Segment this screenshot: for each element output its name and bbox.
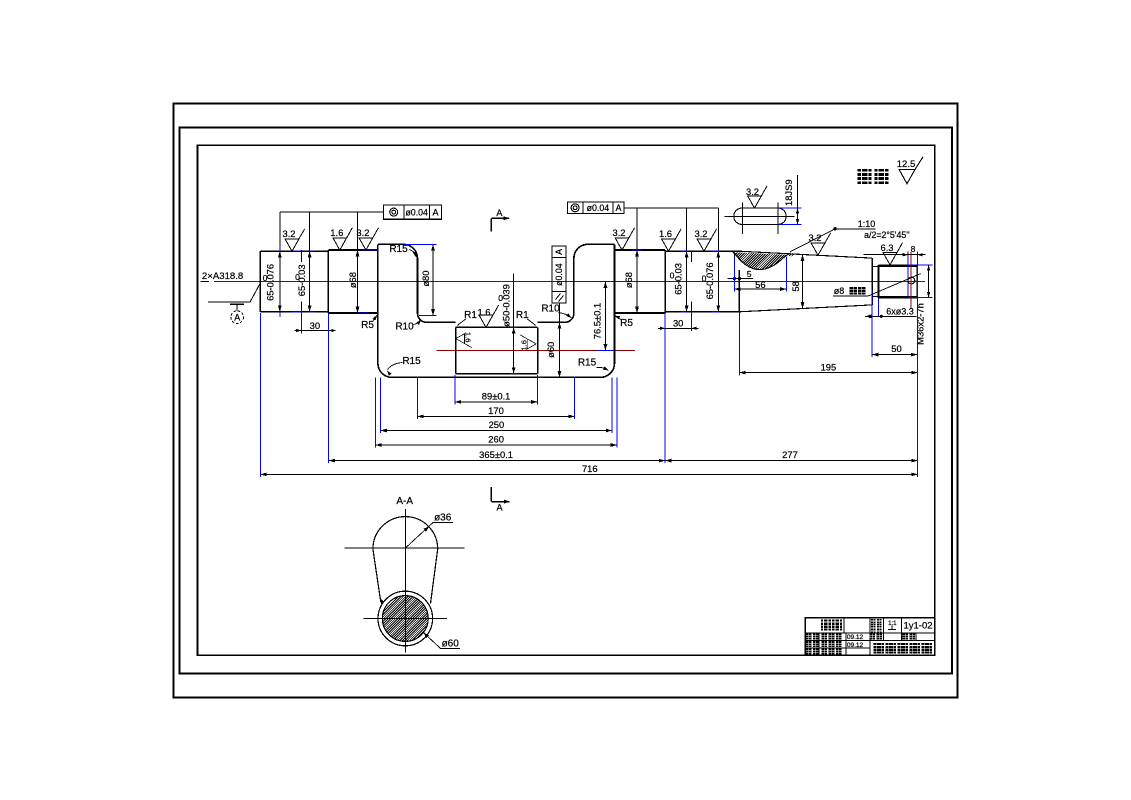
svg-text:A-A: A-A [396,496,413,507]
step Ø68 to Ø65 right [664,250,666,313]
svg-text:30: 30 [673,317,683,328]
title text quzhou [821,620,831,631]
svg-text:18JS9: 18JS9 [783,179,794,206]
svg-text:ø50-0.039: ø50-0.039 [501,284,512,327]
ext line overlap bottom [291,311,302,313]
roughness 1.6 right journal [659,228,681,251]
svg-text:195: 195 [821,361,837,372]
ext line overlap top [291,250,302,252]
svg-text:1y1-02: 1y1-02 [903,621,932,632]
svg-text:A: A [432,207,438,217]
dim 365 line [329,460,665,462]
keyway detail centerline [724,215,794,217]
taper end face [871,258,873,305]
web1 top edge [378,243,404,245]
dim 8 line [864,254,926,256]
pin edge blue overlaps [510,326,517,328]
svg-text:250: 250 [489,419,505,430]
dim 56 [734,288,786,290]
svg-text:6.3: 6.3 [880,242,893,253]
svg-text:3.2: 3.2 [746,186,759,197]
title row4 label [806,649,812,655]
title block v-line main [869,618,871,656]
dim 50 line [872,354,917,356]
crankpin left face [455,327,457,373]
parallelism symbol [556,294,561,300]
svg-text:30: 30 [310,320,320,331]
step Ø65 to Ø68 [327,250,329,313]
section tick right top [690,251,692,262]
svg-text:ø0.04: ø0.04 [587,203,610,213]
crankpin top edge [456,326,538,328]
svg-text:1.6: 1.6 [477,306,490,317]
svg-text:09.12: 09.12 [847,642,864,649]
svg-text:58: 58 [790,281,801,291]
web1 R10 corner to boss [418,313,427,322]
svg-text:716: 716 [582,463,598,474]
Ø65-0.076 right dimension line [717,208,719,312]
M36 thread crest top (thick) [879,264,918,267]
svg-text:R10: R10 [395,321,414,332]
Ø80 extension overlaps [404,243,437,245]
roughness 3.2 first journal [282,228,304,251]
section tick right bottom [690,302,692,312]
groove note line [865,315,917,317]
svg-text:ø68: ø68 [347,272,358,288]
svg-text:260: 260 [488,434,504,445]
roughness 1.6 on pin top [477,305,498,327]
svg-text:ø60: ø60 [545,342,556,358]
svg-text:277: 277 [782,449,798,460]
dim 170 line [417,415,574,417]
M36 thread crest bottom (thick) [879,296,918,299]
svg-text:3.2: 3.2 [282,228,295,239]
web1 right face [417,258,419,313]
title block h-line 3 left [805,647,870,649]
tolerance frame U2 box [568,202,625,214]
title block v-line row1 [843,618,845,633]
Ø60 dimension line [559,322,561,377]
Ø8 hole circle [908,277,915,284]
A-A side arrow [380,598,385,604]
svg-text:M36x2-7h: M36x2-7h [915,303,926,345]
shaft right end face [916,265,918,298]
dim 260 line [375,444,617,446]
Ø50 dimension line [513,274,515,374]
svg-text:ø0.04: ø0.04 [405,207,428,217]
svg-text:09.12: 09.12 [847,634,864,641]
Ø8 hole centerline [910,252,912,309]
svg-text:R5: R5 [620,318,633,329]
svg-text:1.6: 1.6 [659,228,672,239]
A-A pin horizontal centerline [364,618,447,620]
web2 left face [573,258,575,313]
title block h-line 2 [805,640,935,642]
web2 R15 top-left corner [574,244,588,258]
section tick 65-0.076/65-0.03 top [301,250,303,262]
svg-text:1.6: 1.6 [330,227,343,238]
Ø68 bottom edge right [615,312,666,314]
keyway slot left end arc [733,252,735,258]
svg-text:A: A [615,203,621,213]
svg-text:ø0.04: ø0.04 [554,263,564,286]
keyway slot right end fleck [787,253,791,256]
svg-text:R5: R5 [361,320,374,331]
svg-text:3.2: 3.2 [612,227,625,238]
76.5 extension overlaps [597,281,613,283]
ext overlap right top [681,250,687,252]
A-A pin circle [382,596,428,642]
datum line [208,301,250,303]
Ø65-0.03 left dimension line [309,212,311,312]
dim 5 line [727,278,753,280]
18JS9 dimension line [797,175,799,224]
keyway detail left cut line [742,203,744,234]
taper note underline [835,228,876,230]
dim 30 right [665,327,691,329]
dim 277 line [665,460,918,462]
Ø80 dimension line [432,244,434,315]
keyway slot hatching [712,242,834,278]
thread runout ext line [907,252,909,299]
boss top edge right [538,321,565,323]
A-A web right side [431,549,438,604]
section tick 65-0.076/65-0.03 bottom [301,302,303,314]
step Ø65 to taper [738,270,740,312]
tolerance frame U1 box [384,205,442,219]
dim 58 line [802,255,804,309]
roughness 3.2 right journal2 [694,228,716,251]
Ø68 left dimension line [357,212,359,313]
svg-text:1:10: 1:10 [858,219,876,229]
title row2 label [806,634,812,640]
dim 56 blue exts [733,258,735,292]
svg-text:R15: R15 [402,356,421,367]
Ø68 right dimension line [636,208,638,313]
title row4 name [822,649,828,655]
A-A pin hatching [330,595,544,665]
title row2 right blob1 [869,634,875,640]
Ø68 bottom edge left [328,312,378,314]
svg-text:5: 5 [747,269,752,279]
roughness 6.3 thread [880,242,902,265]
A-A web left side [373,549,381,602]
title cell scale labels [871,619,876,624]
tolerance frame U1 leader [280,211,384,213]
18JS9 extension bottom [779,223,802,225]
svg-text:170: 170 [488,405,504,416]
18JS9 extension top [779,207,802,209]
svg-text:65-0.076: 65-0.076 [265,264,276,301]
crankpin bottom edge [456,373,538,375]
svg-text:65-0.03: 65-0.03 [296,264,307,296]
title class text [874,643,885,654]
svg-text:1.6: 1.6 [464,332,473,343]
web1 left face [377,244,379,363]
title block outer box [805,618,935,656]
A-A web top arc [373,517,438,549]
svg-text:A: A [496,503,502,513]
datum A symbol [230,303,244,305]
A-A boss circle [378,591,433,646]
svg-text:ø80: ø80 [420,271,431,287]
title block v-lines right [882,618,884,641]
roughness 1.6 pin right face [519,335,536,351]
M36 dimension line [928,265,930,297]
dim 89 line [455,401,538,403]
groove blue exts [871,305,873,316]
center hole leader [250,283,260,302]
Ø68 top edge left [328,249,378,251]
roughness 3.2 Ø68 left [356,227,378,250]
M36 ext lines [909,264,933,266]
shaft top edge Ø65 left [260,250,328,252]
dim 716 line [260,473,917,475]
svg-text:A: A [496,208,502,218]
taper top edge [739,251,872,258]
shaft left end face [259,251,261,312]
svg-text:65-0.076: 65-0.076 [704,262,715,299]
svg-text:6xø3.3: 6xø3.3 [886,306,914,316]
dim 195 line [739,372,917,374]
web bottom edge [392,376,601,378]
svg-text:A: A [234,313,240,323]
svg-text:1.6: 1.6 [519,340,528,351]
tolerance frame U2 leader [624,207,718,209]
svg-text:3.2: 3.2 [356,227,369,238]
title row2 right blob2 [902,634,908,640]
svg-text:3.2: 3.2 [694,228,707,239]
roughness 12.5 remainder [899,169,915,183]
keyway detail slot outline [734,208,786,224]
roughness 3.2 on keyway detail [746,186,767,208]
web2 R10 corner from boss [565,313,574,322]
tolerance frame U2 concentricity symbol [571,204,579,212]
taper bottom edge [739,305,872,312]
svg-text:R15: R15 [578,357,597,368]
Ø65 top edge right [665,250,739,252]
web2 top edge [588,243,615,245]
Ø65 bottom edge right [665,311,739,313]
svg-text:56: 56 [755,279,765,290]
boss top edge left [427,321,456,323]
svg-text:ø68: ø68 [623,272,634,288]
svg-text:89±0.1: 89±0.1 [482,390,511,401]
A-A main horizontal centerline [344,547,464,549]
thread relief groove bottom [872,296,878,298]
Ø65-0.076 left dimension line [279,212,281,312]
web1 R15 bottom-left corner [378,363,392,377]
web2 R15 bottom-right corner [601,363,615,377]
Ø65-0.03 right dimension line [686,208,688,312]
dim 250 line [381,430,612,432]
ext line overlap Ø68 [362,249,378,251]
inner border frame [198,145,935,655]
svg-text:50: 50 [891,343,901,354]
svg-text:a/2=2°5'45'': a/2=2°5'45'' [864,230,910,240]
crankpin right face [537,327,539,373]
parallelism frame box [552,246,566,303]
web1 R15 top-right corner [404,244,418,258]
svg-text:1:1: 1:1 [888,621,897,627]
section mark A bottom [490,487,492,502]
svg-text:65-0.03: 65-0.03 [672,263,683,295]
groove right wall / thread start face [878,265,880,298]
dimension extension lines [259,313,261,477]
qiyu text [858,169,872,184]
web2 right face [614,244,616,363]
svg-text:ø60: ø60 [442,639,460,650]
crankpin centerline [437,350,635,352]
title row2 name [822,634,828,640]
svg-text:ø8: ø8 [834,286,845,296]
Ø68 top edge right [615,249,666,251]
roughness 3.2 taper [808,232,830,255]
ext overlap Ø68 right [631,249,643,251]
roughness 3.2 Ø68 right [612,227,634,250]
title block h-line 1 [805,632,935,634]
svg-text:365±0.1: 365±0.1 [479,449,513,460]
A-A vertical centerline [404,509,406,652]
title row3 name [822,641,828,647]
ext overlap right bottom [681,311,687,313]
tolerance frame U1 concentricity symbol [390,208,398,216]
svg-text:2×A318.8: 2×A318.8 [202,271,243,282]
svg-text:12.5: 12.5 [897,159,916,170]
main shaft centerline [214,281,925,283]
keyway slot outline [734,252,787,269]
76.5 dimension line [604,282,606,351]
shaft bottom edge Ø65 left [260,311,328,313]
roughness 1.6 pin left face [456,332,473,348]
middle border frame [180,128,953,674]
Ø65-0.076 left ext ticks [279,246,281,251]
dim 30 left [301,330,328,332]
thread relief groove top [872,265,878,267]
dim 30 left blue exts [300,311,302,334]
parallelism frame leader [559,303,561,322]
roughness 1.6 second journal [330,227,352,250]
section mark A top [490,218,492,231]
dim 30 right blue ext [690,312,692,331]
svg-text:A: A [554,249,564,255]
svg-text:R10: R10 [541,303,560,314]
outer border frame [174,104,958,698]
title row3 label [806,641,812,647]
svg-text:R15: R15 [389,244,408,255]
keyway detail right cut line [777,203,779,234]
title block v-line left cols [818,633,820,655]
taper leader [790,229,835,252]
svg-text:76.5±0.1: 76.5±0.1 [591,303,602,339]
